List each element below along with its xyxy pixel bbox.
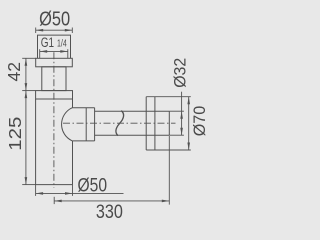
dim Ø50 bottom: left extension [35,185,37,196]
outlet pipe bottom edge [95,134,170,136]
wall flange right face [154,97,156,150]
svg-text:G1: G1 [41,35,54,50]
outlet boss nut seam [85,108,87,141]
arrow 330 right [162,200,170,203]
dim 42: dimension line [25,58,27,90]
dim G1 1/4: left extension [39,49,41,58]
svg-text:Ø32: Ø32 [171,58,189,88]
dim Ø32: top extension [169,110,184,112]
arrow Ø50 top right [65,29,73,32]
arrow 125 bottom [25,177,28,185]
arrow Ø32 top [180,111,183,119]
outlet pipe wall end [168,111,170,135]
svg-text:330: 330 [96,201,123,223]
wall flange top edge + Ø70 extension line [146,96,191,98]
dim 330: left extension (at inlet centerline) [53,197,55,204]
dim Ø32: dimension line [181,92,183,136]
arrow Ø70 top [187,97,190,105]
wall flange bottom edge + Ø70 extension line [146,149,191,151]
svg-text:125: 125 [5,117,25,151]
dim G1 1/4: dimension line [40,50,68,52]
svg-text:Ø50: Ø50 [39,9,70,31]
bottle body right edge lower [72,141,74,185]
wall flange left face [145,97,147,150]
dim Ø50 top: dimension line [36,29,73,31]
dim 125: bottom extension [22,184,35,186]
dim Ø50 bottom: dimension line [36,192,124,194]
dim Ø50 top: right extension stub [71,28,73,34]
dim 125: dimension line [25,91,27,185]
arrow Ø50 top left [36,29,44,32]
dim Ø70: dimension line [188,97,190,150]
neck tube [42,67,66,91]
pipe break squiggle [116,111,124,136]
svg-text:Ø50: Ø50 [78,176,108,197]
outlet boss right face [94,108,96,141]
body cap [36,91,73,99]
arrow Ø32 bottom [180,128,183,136]
bottle body right edge upper [72,99,74,108]
dim G1 1/4: right extension [67,49,69,58]
horizontal centerline of outlet pipe [63,122,176,124]
dim 42/125 shared extension [22,90,35,92]
dim Ø50 bottom: right extension [72,185,74,196]
arrow 42 bottom [25,83,28,91]
top slip nut [36,58,73,67]
dim Ø32: bottom extension [169,134,184,136]
threaded inlet pipe G1 1/4 outline [38,35,71,58]
arrow Ø50 bottom left [36,192,44,195]
arrow Ø70 bottom [187,143,190,151]
arrow G1 right [60,50,68,53]
dim 42: top extension [22,57,36,59]
svg-text:1/4: 1/4 [57,38,67,50]
svg-text:Ø70: Ø70 [191,106,209,137]
arrow 125 top [25,91,28,99]
dim 330: dimension line [54,200,169,202]
arrow 330 left [54,200,62,203]
svg-text:42: 42 [4,62,24,82]
outlet boss left arc [62,108,73,141]
dim Ø50 top: left extension stub [35,28,37,34]
bottle body bottom edge [36,184,73,186]
arrow Ø50 bottom right [65,192,73,195]
vertical centerline of inlet pipe [53,52,55,188]
arrow 42 top [25,58,28,66]
dim 330: right extension (from pipe wall end) [168,136,170,205]
outlet boss bottom edge [72,140,94,142]
outlet boss top edge [72,107,94,109]
arrow G1 left [40,50,48,53]
bottle body left edge [35,99,37,185]
outlet pipe top edge [95,110,170,112]
